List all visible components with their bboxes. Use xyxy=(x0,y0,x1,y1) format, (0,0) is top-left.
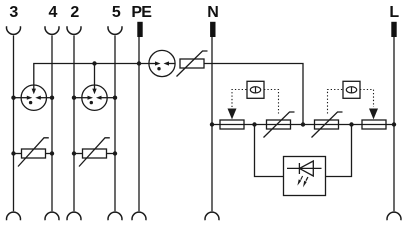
terminal stud top PE xyxy=(137,22,142,37)
varistor RV4 (N side) body xyxy=(267,120,291,129)
node line3 at U1 xyxy=(11,96,15,100)
disconnector F1 body xyxy=(220,120,244,129)
dashed link F1 to T1 xyxy=(232,90,247,108)
wire drop to LED left xyxy=(255,125,284,177)
spark gap U2 (2,5) circle xyxy=(82,85,107,110)
LED flash arrow 1 xyxy=(301,176,303,180)
wire line 3 vertical xyxy=(13,35,15,211)
svg-text:3: 3 xyxy=(9,4,18,21)
disconnector F2 trip arrow xyxy=(369,109,378,120)
node line5 at U2 xyxy=(113,96,117,100)
node bus at L xyxy=(392,122,396,126)
LED cathode bar xyxy=(298,163,300,174)
node bus at N xyxy=(210,122,214,126)
wire line PE vertical xyxy=(138,37,140,211)
spark gap U3 right shaft xyxy=(168,63,175,65)
terminal clamp bottom 3 xyxy=(7,212,21,220)
svg-text:5: 5 xyxy=(112,4,121,21)
svg-text:4: 4 xyxy=(48,4,57,21)
svg-text:N: N xyxy=(207,4,219,21)
wire line 2 vertical xyxy=(73,35,75,211)
spark gap U2 gas dot xyxy=(90,101,93,104)
terminal clamp bottom 4 xyxy=(45,212,59,220)
spark gap U3 (PE path) circle xyxy=(149,50,175,76)
spark gap U3 gas dot xyxy=(157,67,160,70)
wire common horizontal left xyxy=(34,64,149,90)
spark gap U3 left shaft xyxy=(149,63,156,65)
thermal sensor T2 box xyxy=(343,81,360,98)
varistor RV5 diagonal xyxy=(312,112,343,138)
wire GDT2 top stub xyxy=(94,64,96,90)
svg-text:L: L xyxy=(389,4,399,21)
varistor RV1 (3-4) body xyxy=(22,149,46,158)
dashed link RV5 to T2 xyxy=(328,90,344,114)
disconnector F1 trip arrow xyxy=(228,109,237,120)
terminal clamp bottom 2 xyxy=(67,212,81,220)
dashed link T1 to RV4 xyxy=(264,90,279,114)
spark gap U1 right stub xyxy=(39,97,52,99)
varistor RV3 (series PE) body xyxy=(180,59,204,68)
wire line 4 vertical xyxy=(51,35,53,211)
terminal stud top L xyxy=(391,22,396,37)
node line2 at U2 xyxy=(72,96,76,100)
wire common mid to bus xyxy=(204,64,303,125)
wire line N vertical xyxy=(211,37,213,211)
disconnector F2 body xyxy=(362,120,386,129)
spark gap U2 top arrowhead xyxy=(92,89,96,95)
terminal clamp bottom N xyxy=(205,212,219,220)
spark gap U3 right arrowhead xyxy=(164,61,170,65)
terminal clamp top 5 xyxy=(108,26,122,34)
svg-text:PE: PE xyxy=(131,4,152,21)
varistor RV1 stubs xyxy=(14,153,22,155)
varistor RV4 diagonal xyxy=(264,112,295,138)
thermal sensor T1 box xyxy=(247,81,264,98)
spark gap U1 top arrowhead xyxy=(32,89,36,95)
terminal stud top N xyxy=(210,22,215,37)
terminal clamp bottom 5 xyxy=(108,212,122,220)
wire line 5 vertical xyxy=(114,35,116,211)
wire line L vertical xyxy=(393,37,395,211)
node bus mid-right xyxy=(349,122,353,126)
spark gap U1 left stub xyxy=(14,97,30,99)
LED indicator box xyxy=(284,157,326,196)
spark gap U1 (3,4) circle xyxy=(21,85,46,110)
svg-text:2: 2 xyxy=(70,4,79,21)
node bus center xyxy=(301,122,305,126)
terminal clamp bottom PE xyxy=(132,212,146,220)
dashed link T2 to F2 xyxy=(360,90,374,108)
node line5 at RV2 xyxy=(113,151,117,155)
terminal clamp top 2 xyxy=(67,26,81,34)
spark gap U3 left arrowhead xyxy=(155,61,161,65)
node line2 at RV2 xyxy=(72,151,76,155)
varistor RV1 diagonal xyxy=(18,138,49,167)
varistor RV2 diagonal xyxy=(79,138,110,167)
spark gap U1 left arrowhead xyxy=(27,96,33,100)
node line4 at RV1 xyxy=(50,151,54,155)
spark gap U2 right stub xyxy=(99,97,115,99)
terminal clamp top 4 xyxy=(45,26,59,34)
node at GDT2 top stub xyxy=(92,61,96,65)
terminal clamp bottom L xyxy=(387,212,401,220)
varistor RV3 diagonal xyxy=(177,51,208,77)
LED diode triangle xyxy=(299,161,313,176)
LED flash arrow 2 xyxy=(306,177,308,181)
wire drop to LED right xyxy=(326,125,352,177)
spark gap U1 right arrowhead xyxy=(35,96,41,100)
node line4 at U1 xyxy=(50,96,54,100)
node bus mid-left xyxy=(252,122,256,126)
thermal sensor T1 theta symbol xyxy=(250,87,260,93)
terminal clamp top 3 xyxy=(7,26,21,34)
varistor RV5 (L side) body xyxy=(315,120,339,129)
varistor RV2 (2-5) body xyxy=(83,149,107,158)
thermal sensor T2 theta symbol xyxy=(346,87,356,93)
spark gap U1 gas dot xyxy=(29,101,32,104)
spark gap U2 left arrowhead xyxy=(88,96,94,100)
node line3 at RV1 xyxy=(11,151,15,155)
varistor RV2 stubs xyxy=(74,153,83,155)
spark gap U2 right arrowhead xyxy=(96,96,102,100)
wire bus N-L xyxy=(212,124,394,126)
spark gap U2 left stub xyxy=(74,97,90,99)
LED diode axis xyxy=(287,167,322,169)
node PE common xyxy=(137,61,141,65)
